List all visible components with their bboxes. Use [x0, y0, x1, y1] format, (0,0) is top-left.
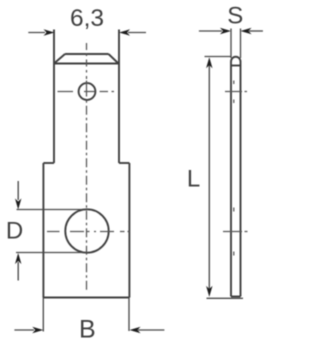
tab shoulder line: [54, 63, 119, 65]
tab tip left chamfer: [54, 54, 65, 64]
dim L arrow line: [208, 62, 210, 292]
arrowhead S right: [241, 28, 252, 34]
tab tip right chamfer: [109, 54, 119, 64]
dim B left arrow line: [14, 329, 34, 331]
arrowhead L bottom: [206, 286, 212, 297]
small hole horizontal centerline dash 2: [84, 91, 95, 93]
side small hole vertical centerline dash top: [233, 81, 235, 85]
body right edge: [128, 163, 130, 298]
tab right edge: [118, 30, 120, 164]
side view tip base line: [231, 65, 241, 67]
svg-text:6,3: 6,3: [70, 5, 104, 32]
side small hole horizontal centerline: [225, 91, 249, 93]
front vertical centerline upper: [86, 43, 88, 79]
arrowhead 6,3 left: [44, 29, 55, 35]
dim B left extension line: [42, 298, 44, 332]
tab tip top edge: [65, 53, 109, 55]
big hole horizontal centerline dot 2: [94, 231, 96, 233]
arrowhead D top: [15, 199, 21, 210]
dim S left arrow line: [199, 30, 222, 32]
arrowhead B left: [32, 327, 43, 333]
arrowhead 6,3 right: [119, 29, 130, 35]
big hole horizontal centerline dash 5: [128, 231, 130, 233]
svg-text:S: S: [227, 2, 243, 29]
arrowhead S left: [220, 28, 231, 34]
side big hole vertical centerline dash bottom: [233, 252, 235, 256]
svg-text:D: D: [6, 218, 23, 245]
dim D bottom arrow line: [17, 262, 19, 281]
side small hole vertical centerline dash bottom: [233, 100, 235, 104]
side view bottom edge: [231, 296, 241, 298]
side view rounded tip: [231, 57, 241, 62]
left step: [43, 162, 54, 164]
dim D bottom extension line: [16, 252, 87, 254]
svg-text:B: B: [79, 315, 96, 342]
dim 6,3 left arrow line: [28, 32, 45, 34]
tab left edge: [53, 30, 55, 164]
small hole horizontal centerline dash 3: [100, 91, 108, 93]
side big hole vertical centerline dash top: [233, 208, 235, 212]
front vertical centerline through small hole: [86, 81, 88, 97]
side view left edge: [230, 62, 232, 297]
dim B right arrow line: [138, 329, 164, 331]
svg-text:L: L: [187, 166, 200, 193]
dim L top extension line: [205, 56, 232, 58]
right step: [119, 162, 129, 164]
body left edge: [42, 163, 44, 298]
side big hole horizontal centerline: [223, 231, 249, 233]
dim 6,3 right arrow line: [128, 32, 146, 34]
dim D top extension line: [17, 209, 89, 211]
dim S left extension line: [230, 29, 232, 59]
front vertical centerline lower: [86, 101, 88, 293]
big hole horizontal centerline dash 4: [120, 231, 125, 233]
body bottom edge: [43, 297, 129, 299]
big hole horizontal centerline dash 2: [70, 231, 84, 233]
big hole horizontal centerline dot 1: [87, 231, 90, 233]
arrowhead B right: [130, 327, 141, 333]
big hole horizontal centerline dash 1: [47, 231, 60, 233]
arrowhead D bottom: [15, 253, 21, 264]
big hole: [65, 209, 108, 252]
side view right edge: [240, 62, 242, 297]
dim L bottom extension line: [207, 297, 244, 299]
dim B right extension line: [128, 298, 130, 332]
dim D top arrow line: [17, 181, 19, 200]
big hole horizontal centerline dash 3: [100, 231, 114, 233]
small hole horizontal centerline dash 1: [58, 91, 74, 93]
dim S right extension line: [240, 29, 242, 59]
small hole: [79, 83, 96, 100]
dim S right arrow line: [249, 30, 263, 32]
arrowhead L top: [206, 57, 212, 68]
small hole horizontal centerline dot: [112, 91, 115, 93]
